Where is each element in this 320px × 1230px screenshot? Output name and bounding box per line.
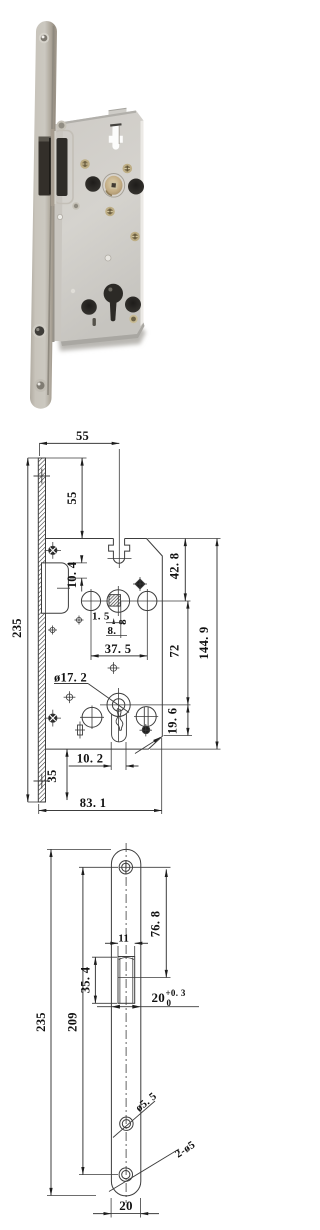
faceplate (in front) <box>30 21 57 409</box>
svg-text:235: 235 <box>10 618 24 638</box>
svg-text:11: 11 <box>118 933 129 945</box>
dim: 144.9 <box>150 748 221 750</box>
svg-text:55: 55 <box>76 429 89 443</box>
dim: 37.5 <box>90 613 92 660</box>
euro keyhole <box>104 284 123 303</box>
small screw near keyhole <box>129 315 137 323</box>
lower circles <box>82 707 102 727</box>
small stud part <box>78 725 83 735</box>
svg-text:144. 9: 144. 9 <box>197 626 211 659</box>
body bottom edge band <box>61 323 145 347</box>
svg-text:76. 8: 76. 8 <box>149 911 163 938</box>
dark holes lower <box>81 299 97 315</box>
dim: 55 vertical <box>46 457 87 459</box>
follower row centerline <box>82 600 191 602</box>
svg-text:72: 72 <box>168 644 182 657</box>
body drop shadow <box>58 327 146 351</box>
svg-text:1. 5: 1. 5 <box>92 611 110 623</box>
notch slot (white cutout) <box>109 125 123 150</box>
dim: 20 +0.3/0 <box>97 1006 199 1008</box>
right circle <box>138 591 157 610</box>
faceplate side view (hatched bar) <box>38 458 45 802</box>
dim: 10.2 <box>110 742 112 770</box>
svg-text:235: 235 <box>34 1012 48 1032</box>
lock body outline <box>46 539 163 750</box>
lock body plate <box>61 111 144 342</box>
tiny holes <box>57 214 62 219</box>
dim: 35.4 <box>92 956 117 958</box>
svg-text:35: 35 <box>45 769 59 782</box>
svg-text:0: 0 <box>167 998 172 1008</box>
latch side view <box>42 563 69 613</box>
svg-text:209: 209 <box>66 1012 80 1032</box>
emboss around latch opening <box>54 131 73 204</box>
follower circle + hatched square <box>107 590 130 613</box>
top notch <box>109 539 130 564</box>
svg-text:35. 4: 35. 4 <box>79 966 93 993</box>
label: Ø5.5 <box>113 1101 155 1138</box>
dim: 235 left <box>28 457 38 459</box>
dim: 209 <box>79 866 118 868</box>
svg-text:42. 8: 42. 8 <box>168 553 182 580</box>
svg-text:37. 5: 37. 5 <box>105 642 132 656</box>
dim: 235 <box>47 848 111 850</box>
svg-text:8: 8 <box>117 619 129 625</box>
dim: 72 <box>187 601 189 705</box>
svg-text:83. 1: 83. 1 <box>80 796 107 810</box>
label: 2-Ø5 <box>109 1149 179 1192</box>
follower (brass hub) <box>103 174 125 198</box>
svg-text:10. 4: 10. 4 <box>65 561 79 588</box>
svg-text:20: 20 <box>152 990 166 1005</box>
body right edge highlight <box>141 121 144 327</box>
vertical dash-dot centerline <box>125 843 127 1203</box>
cylinder circle <box>107 693 130 716</box>
svg-text:ø5. 5: ø5. 5 <box>133 1090 159 1114</box>
plate mounting screws (filled) <box>45 542 62 727</box>
screw diamond <box>133 577 147 591</box>
svg-text:ø17. 2: ø17. 2 <box>54 671 87 685</box>
dim: 20 bottom <box>110 1198 112 1218</box>
dark latch opening in body <box>57 138 68 196</box>
dim: 55 top <box>39 442 119 444</box>
latch bolt over plate <box>39 137 52 196</box>
faceplate front view outline <box>111 849 140 1196</box>
middle screw hole <box>120 1117 133 1130</box>
silver screw top-left of body <box>57 121 67 131</box>
dark holes upper <box>85 176 101 192</box>
dim: 42.8 <box>148 538 221 540</box>
svg-text:19. 6: 19. 6 <box>166 708 180 735</box>
faceplate screw cross top <box>34 469 51 789</box>
small cross marks <box>48 616 119 704</box>
svg-text:10. 2: 10. 2 <box>77 752 104 766</box>
top screw hole <box>119 861 132 874</box>
body top edge shading <box>63 111 136 125</box>
svg-text:55: 55 <box>65 491 79 504</box>
svg-text:2-ø5: 2-ø5 <box>173 1139 198 1161</box>
dim: 76.8 <box>133 866 171 868</box>
bottom screw hole <box>119 1168 132 1181</box>
svg-text:+0. 3: +0. 3 <box>166 988 186 998</box>
dim: 83.1 <box>38 804 40 814</box>
dim: 19.6 <box>164 735 193 737</box>
latch cutout <box>118 957 135 1004</box>
photo background <box>0 0 249 420</box>
left circle <box>81 591 100 610</box>
dim: 10.4 latch <box>68 562 87 564</box>
notch tab above top edge <box>109 108 127 116</box>
plate screws <box>39 33 49 43</box>
filled screw dot with leader <box>142 726 150 734</box>
dim: 35 bottom-left <box>66 749 68 800</box>
svg-text:20: 20 <box>119 1198 133 1213</box>
seam / plate side shadow column <box>53 124 65 341</box>
